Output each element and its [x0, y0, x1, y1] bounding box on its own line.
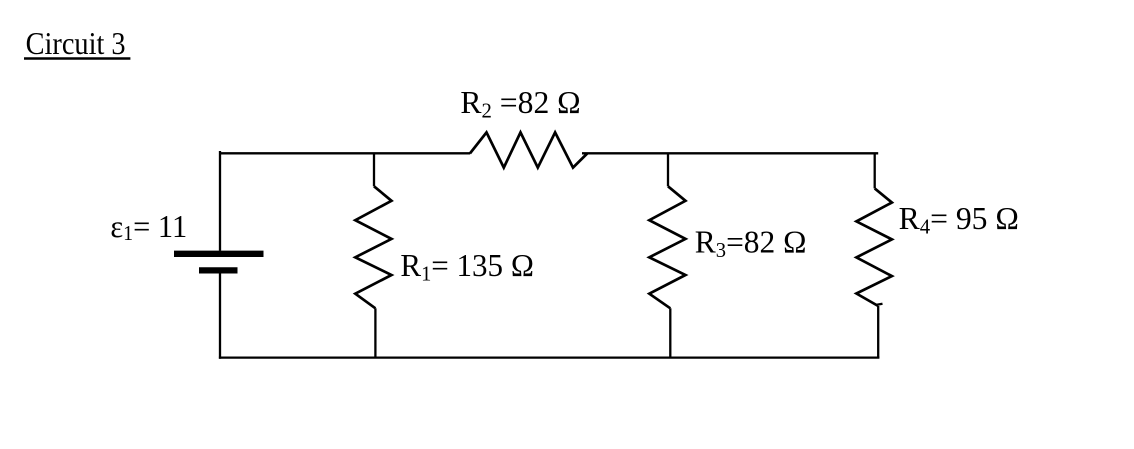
resistor R1 zigzag	[355, 186, 391, 308]
battery B1 long plate (positive terminal)	[174, 251, 264, 257]
wire top rail left segment (battery + to R2)	[220, 152, 470, 154]
svg-text:Circuit 3: Circuit 3	[26, 25, 126, 61]
wire R4 bottom lead	[877, 306, 879, 358]
wire R3 top lead	[667, 153, 669, 186]
wire R1 top lead	[373, 153, 375, 186]
wire left side lower (battery - lead)	[219, 273, 221, 358]
svg-text:R4= 95 Ω: R4= 95 Ω	[899, 200, 1019, 239]
svg-text:ε1= 11: ε1= 11	[110, 208, 187, 245]
wire left side upper (battery + lead)	[219, 151, 221, 251]
wire R4 top lead	[874, 153, 876, 188]
battery B1 short plate (negative terminal)	[199, 267, 238, 273]
wire top rail right segment (R2 to R4 top corner)	[582, 152, 878, 154]
svg-text:R2 =82 Ω: R2 =82 Ω	[460, 84, 580, 123]
wire R3 bottom lead	[669, 308, 671, 357]
resistor R2 zigzag	[470, 132, 587, 167]
resistor R3 zigzag	[649, 186, 685, 308]
title underline	[24, 57, 130, 60]
wire R1 bottom lead	[374, 308, 376, 357]
svg-text:R3=82 Ω: R3=82 Ω	[695, 223, 807, 262]
svg-text:R1= 135 Ω: R1= 135 Ω	[400, 247, 534, 286]
resistor R4 bottom junction tick	[876, 304, 883, 305]
wire bottom rail	[219, 356, 880, 358]
resistor R4 zigzag	[856, 188, 892, 306]
